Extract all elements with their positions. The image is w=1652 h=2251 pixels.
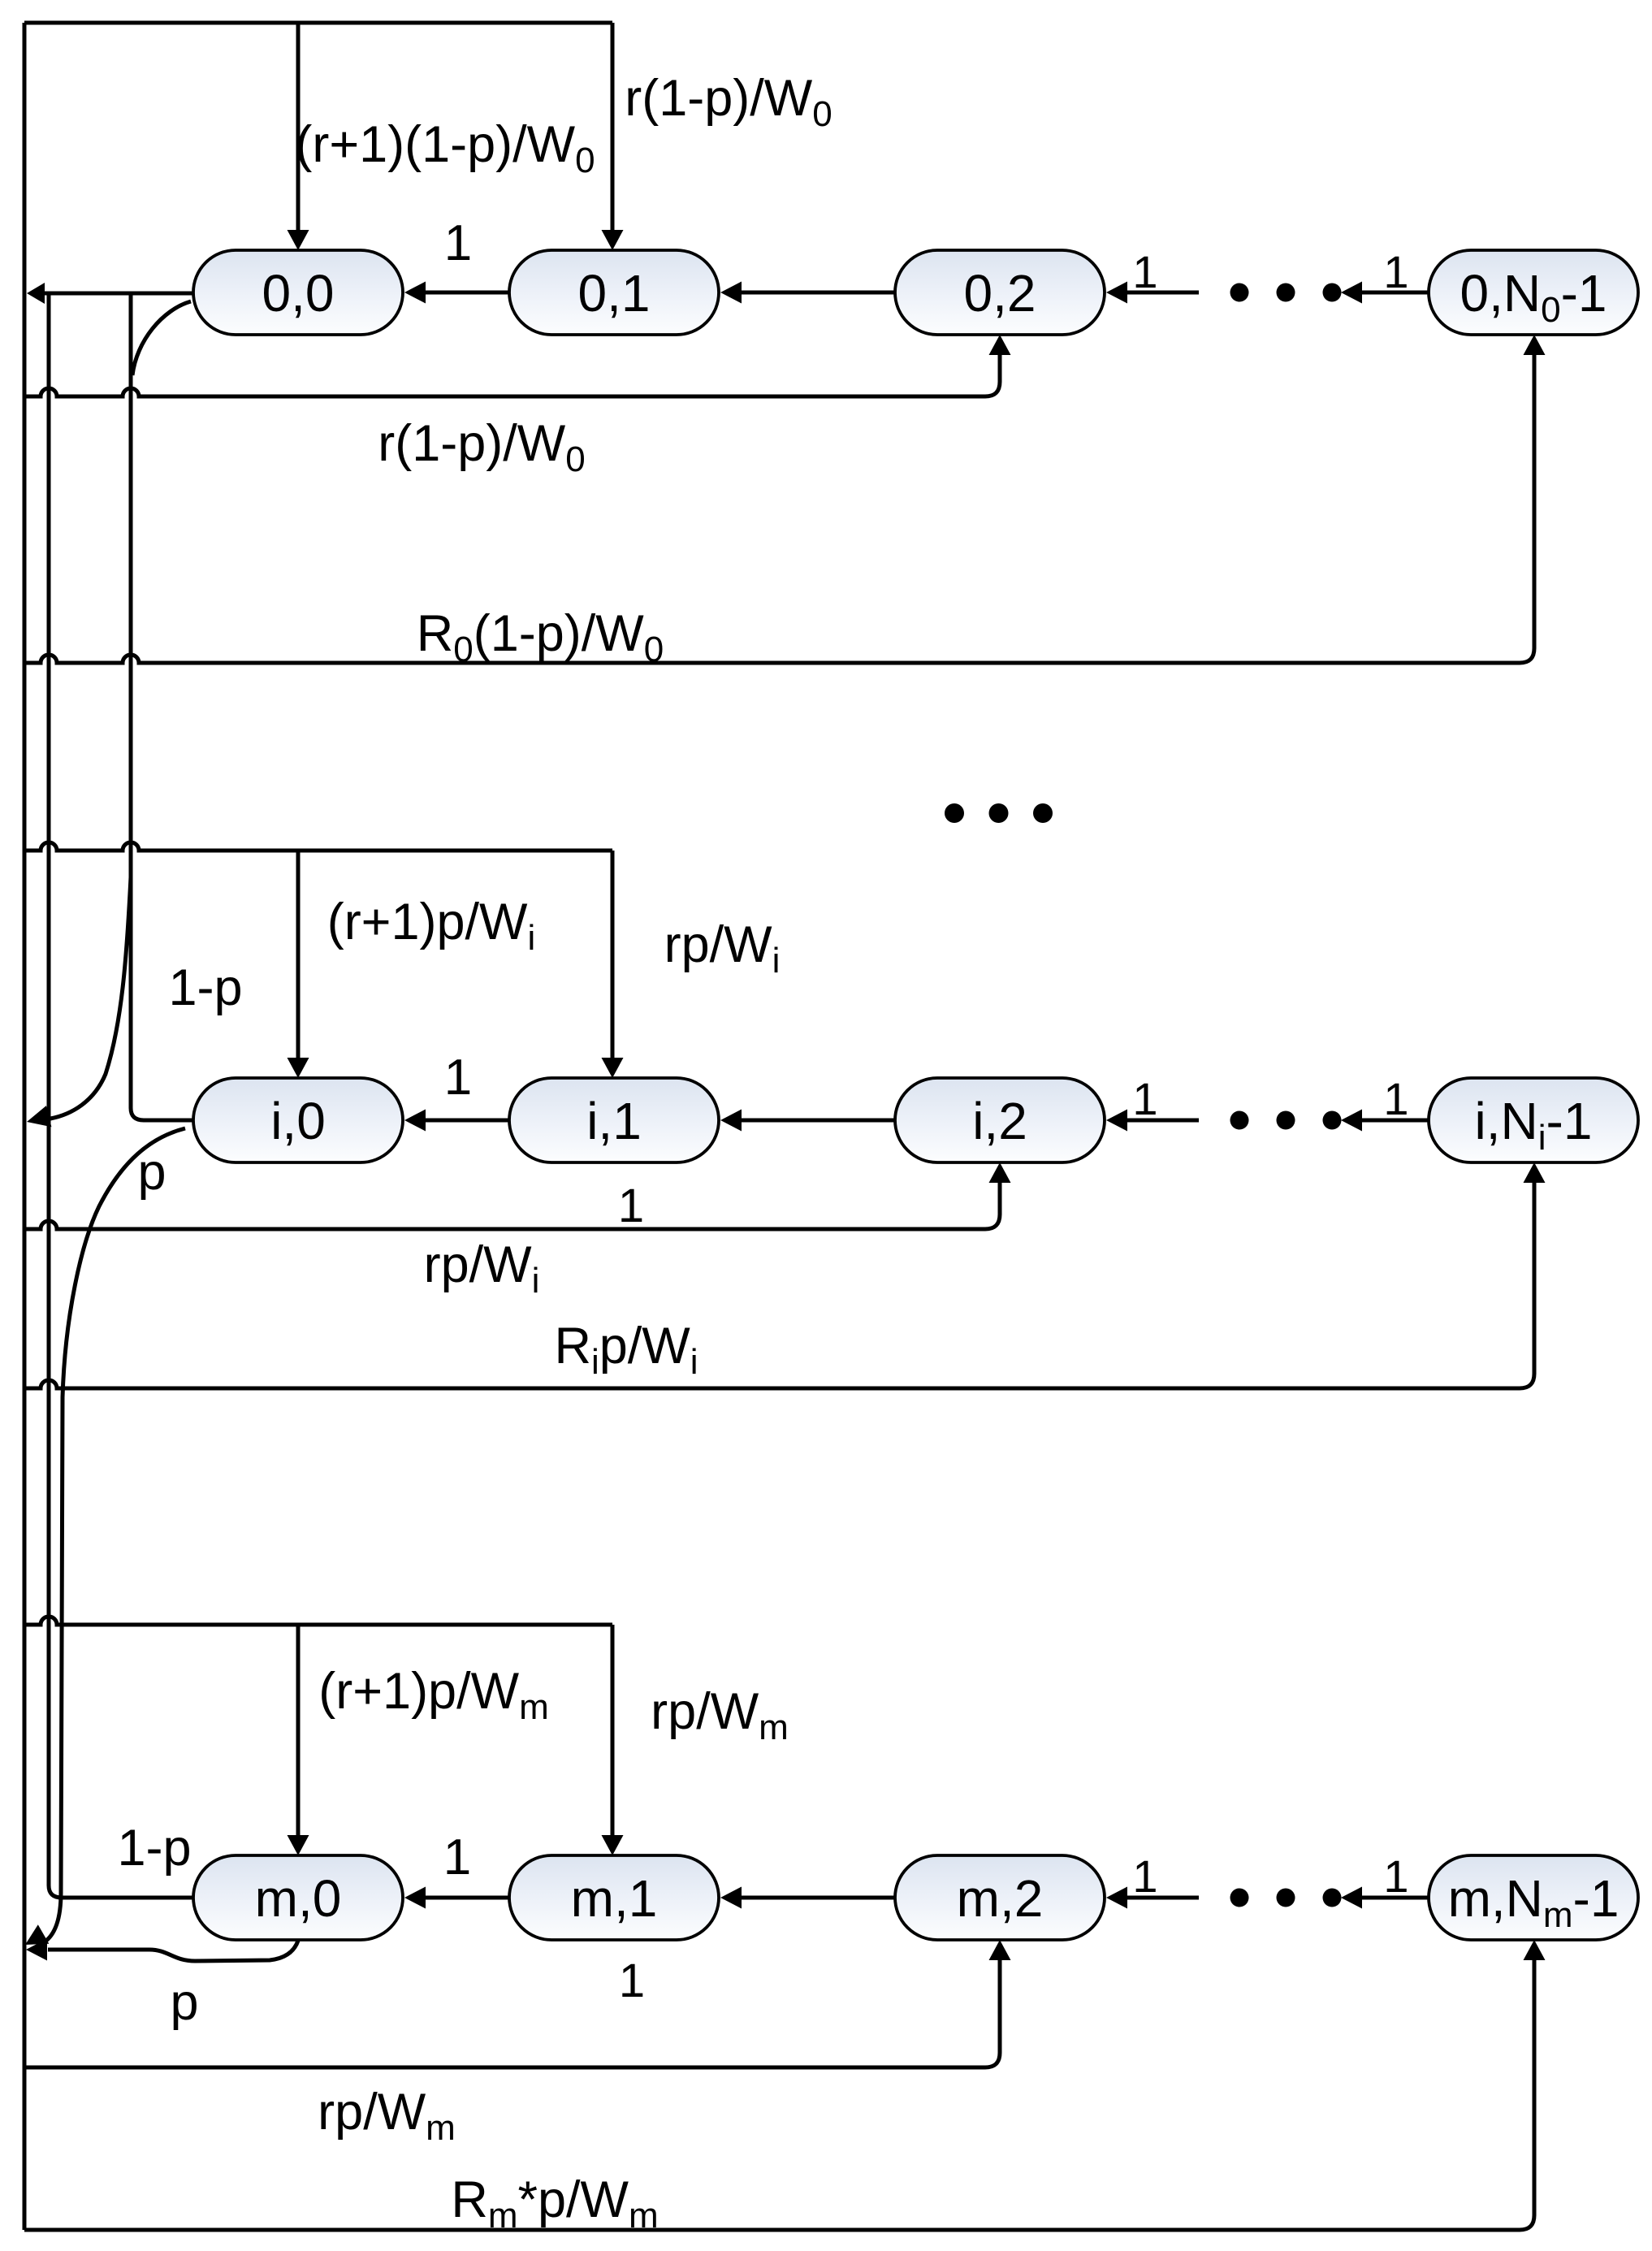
wire arrow 0,1 to 0,0 bbox=[424, 291, 509, 295]
svg-text:r(1-p)/W0​: r(1-p)/W0​ bbox=[378, 415, 585, 479]
arrowhead at 0,2 right edge bbox=[1106, 282, 1127, 304]
wire arrow i,1 to i,0 bbox=[424, 1119, 509, 1123]
svg-text:(r+1)p/Wm​: (r+1)p/Wm​ bbox=[318, 1663, 548, 1727]
wire corner up into i,2 bbox=[985, 1182, 1000, 1229]
wire section-i return line Rip/Wi bbox=[24, 1380, 1520, 1388]
arrowhead into i,2 bottom bbox=[989, 1162, 1011, 1183]
wire curve 0,0 down to channel V3 bbox=[132, 301, 191, 375]
row-m ellipsis dots bbox=[1230, 1889, 1249, 1907]
node m,2 bbox=[895, 1855, 1105, 1940]
svg-text:i,Ni​-1: i,Ni​-1 bbox=[1475, 1092, 1593, 1158]
arrowhead into 0,N0-1 bottom bbox=[1524, 335, 1546, 355]
arrowhead into m,2 bottom bbox=[989, 1940, 1011, 1960]
arrowhead into m,0 top bbox=[288, 1835, 309, 1855]
wire section-m bottom return line Rm*p/Wm bbox=[24, 2228, 1520, 2232]
arrowhead at 0,1 right edge bbox=[720, 282, 742, 304]
arrowhead at i,2 right edge bbox=[1106, 1110, 1127, 1132]
wire section-0 top distribution line bbox=[24, 21, 612, 25]
svg-text:m,0: m,0 bbox=[255, 1869, 342, 1928]
row-0 ellipsis dots bbox=[1230, 284, 1249, 302]
svg-text:(r+1)p/Wi​: (r+1)p/Wi​ bbox=[327, 894, 536, 958]
svg-text:r(1-p)/W0​: r(1-p)/W0​ bbox=[625, 70, 832, 134]
svg-text:m,1: m,1 bbox=[571, 1869, 658, 1928]
wire section-0 return line R0(1-p)/W0 bbox=[24, 655, 1520, 663]
svg-text:rp/Wm​: rp/Wm​ bbox=[651, 1683, 789, 1747]
svg-text:rp/Wi​: rp/Wi​ bbox=[424, 1236, 540, 1301]
arrowhead into 0,0 top bbox=[288, 230, 309, 250]
wire section-i top distribution line bbox=[24, 842, 612, 851]
arrowhead left of 0,N0-1 bbox=[1341, 282, 1362, 304]
wire arrow dots to m,2 bbox=[1126, 1896, 1199, 1900]
wire drop into m,0 bbox=[296, 1625, 301, 1836]
node i,2 bbox=[895, 1078, 1105, 1162]
wire corner up into m,2 bbox=[985, 1959, 1000, 2067]
svg-text:0,1: 0,1 bbox=[578, 264, 651, 322]
wire arrow 0,2 to 0,1 bbox=[740, 291, 895, 295]
wire section-m return line rp/Wm bbox=[24, 2066, 985, 2070]
arrowhead at i,0 right edge bbox=[404, 1110, 426, 1132]
arrowhead left of i,Ni-1 bbox=[1341, 1110, 1362, 1132]
wire drop into i,1 bbox=[611, 851, 615, 1058]
arrowhead into 0,2 bottom bbox=[989, 335, 1011, 355]
wire V2 corner into node m,0 bbox=[49, 1885, 195, 1898]
wire arrow dots to 0,2 bbox=[1126, 291, 1199, 295]
wire arrow m,2 to m,1 bbox=[740, 1896, 895, 1900]
arrowhead at i,1 right edge bbox=[720, 1110, 742, 1132]
svg-text:Ri​p/Wi​: Ri​p/Wi​ bbox=[554, 1318, 698, 1382]
wire corner up into m,Nm-1 bbox=[1520, 1959, 1534, 2230]
wire arrow i,2 to i,1 bbox=[740, 1119, 895, 1123]
arrowhead at m,1 right edge bbox=[720, 1887, 742, 1909]
svg-text:1: 1 bbox=[619, 1954, 645, 2007]
arrowhead into left bus at row m (from i,0 curve) bbox=[25, 1924, 49, 1945]
svg-text:rp/Wi​: rp/Wi​ bbox=[664, 916, 781, 980]
wire section-m top distribution line bbox=[24, 1617, 612, 1625]
svg-text:(r+1)(1-p)/W0​: (r+1)(1-p)/W0​ bbox=[295, 116, 595, 180]
node 0,0 bbox=[193, 250, 403, 335]
arrowhead into 0,1 top bbox=[602, 230, 624, 250]
row-i ellipsis dots bbox=[1230, 1111, 1249, 1130]
wire from 0,0 left to bus bbox=[43, 292, 193, 296]
node m,1 bbox=[509, 1855, 719, 1940]
arrowhead into i,1 top bbox=[602, 1058, 624, 1078]
wire drop into 0,1 bbox=[611, 23, 615, 231]
wire drop into 0,0 bbox=[296, 23, 301, 231]
svg-text:Rm​*p/Wm​: Rm​*p/Wm​ bbox=[451, 2171, 658, 2236]
wire corner up into 0,2 bbox=[985, 354, 1000, 396]
svg-text:1: 1 bbox=[444, 1050, 472, 1106]
svg-text:p: p bbox=[170, 1974, 198, 2031]
svg-text:1: 1 bbox=[444, 215, 472, 271]
svg-text:1: 1 bbox=[1383, 1073, 1408, 1124]
node 0,1 bbox=[509, 250, 719, 335]
arrowhead at m,0 right edge bbox=[404, 1887, 426, 1909]
arrowhead into left bus at row 0 bbox=[27, 283, 45, 304]
arrowhead into i,Ni-1 bottom bbox=[1524, 1162, 1546, 1183]
svg-text:i,1: i,1 bbox=[586, 1092, 642, 1150]
svg-text:0,N0​-1: 0,N0​-1 bbox=[1460, 264, 1607, 330]
wire curve p from m,0 to left bus bbox=[48, 1941, 298, 1961]
wire curve from V3 into left bus (1-p) bbox=[50, 877, 131, 1119]
arrowhead at 0,0 right edge bbox=[404, 282, 426, 304]
wire drop into i,0 bbox=[296, 851, 301, 1058]
svg-text:m,Nm​-1: m,Nm​-1 bbox=[1448, 1869, 1620, 1935]
svg-text:1-p: 1-p bbox=[168, 959, 242, 1016]
arrowhead into left bus at row m (from m,0) bbox=[26, 1939, 47, 1961]
svg-text:i,0: i,0 bbox=[270, 1092, 326, 1150]
arrowhead at m,2 right edge bbox=[1106, 1887, 1127, 1909]
svg-text:m,2: m,2 bbox=[957, 1869, 1044, 1928]
wire section-i return line rp/Wi bbox=[24, 1221, 985, 1229]
wire arrow dots to i,2 bbox=[1126, 1119, 1199, 1123]
svg-text:0,0: 0,0 bbox=[262, 264, 335, 322]
svg-text:0,2: 0,2 bbox=[964, 264, 1036, 322]
wire drop into m,1 bbox=[611, 1625, 615, 1836]
svg-text:1: 1 bbox=[1132, 246, 1157, 297]
svg-text:1: 1 bbox=[1132, 1851, 1157, 1902]
node i,Ni-1 bbox=[1429, 1078, 1638, 1162]
wire channel V3 from node 0,0 down to stage i bbox=[129, 295, 133, 1108]
arrowhead left of m,Nm-1 bbox=[1341, 1887, 1362, 1909]
svg-text:i,2: i,2 bbox=[972, 1092, 1027, 1150]
node i,0 bbox=[193, 1078, 403, 1162]
svg-text:rp/Wm​: rp/Wm​ bbox=[318, 2084, 456, 2148]
arrowhead into i,0 top bbox=[288, 1058, 309, 1078]
svg-text:p: p bbox=[137, 1144, 166, 1201]
svg-text:1: 1 bbox=[443, 1829, 471, 1885]
node 0,2 bbox=[895, 250, 1105, 335]
wire left bus V2 bbox=[47, 295, 51, 1885]
node i,1 bbox=[509, 1078, 719, 1162]
arrowhead into left bus at row i bbox=[27, 1106, 51, 1127]
svg-text:1: 1 bbox=[1132, 1073, 1157, 1124]
wire left bus V1 bbox=[23, 23, 27, 2230]
svg-text:1: 1 bbox=[618, 1180, 644, 1232]
svg-text:R0​(1-p)/W0​: R0​(1-p)/W0​ bbox=[417, 605, 664, 669]
wire arrow m,1 to m,0 bbox=[424, 1896, 509, 1900]
wire arrow i,Ni-1 to dots bbox=[1360, 1119, 1429, 1123]
wire V3 corner into node i,0 bbox=[131, 1108, 195, 1120]
svg-text:1: 1 bbox=[1383, 1851, 1408, 1902]
node 0,N0-1 bbox=[1429, 250, 1638, 335]
svg-text:1: 1 bbox=[1383, 246, 1408, 297]
wire arrow 0,N0-1 to dots bbox=[1360, 291, 1429, 295]
mid ellipsis dots between sections bbox=[945, 803, 964, 823]
wire curve p from i,0 down to row m bbox=[44, 1128, 185, 1942]
wire arrow m,Nm-1 to dots bbox=[1360, 1896, 1429, 1900]
wire section-0 return line r(1-p)/W0 bbox=[24, 388, 985, 396]
node m,Nm-1 bbox=[1429, 1855, 1638, 1940]
svg-text:1-p: 1-p bbox=[117, 1820, 191, 1877]
node m,0 bbox=[193, 1855, 403, 1940]
wire corner up into 0,N0-1 bbox=[1520, 354, 1534, 663]
arrowhead into m,Nm-1 bottom bbox=[1524, 1940, 1546, 1960]
wire corner up into i,Ni-1 bbox=[1520, 1182, 1534, 1388]
arrowhead into m,1 top bbox=[602, 1835, 624, 1855]
